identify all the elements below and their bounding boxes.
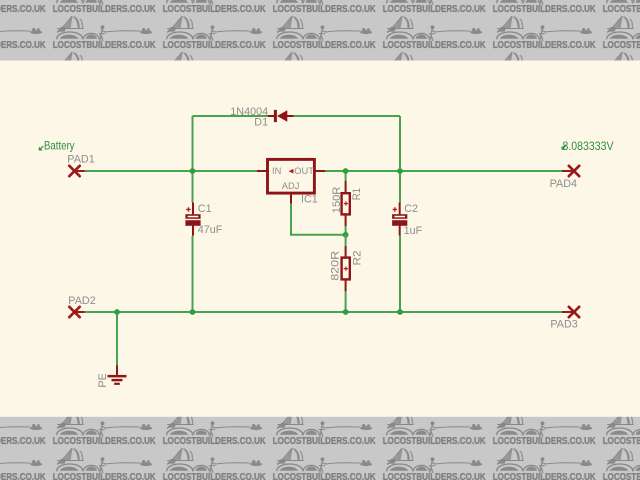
wire main input net (y=171) [85,170,258,172]
svg-text:47uF: 47uF [198,224,223,236]
ground PE [97,366,127,388]
wire R2 upper branch [345,235,347,246]
svg-text:PE: PE [97,373,109,387]
junction ground net / C2 branch [397,309,403,315]
svg-text:OUT: OUT [294,166,314,176]
junction ground net / R2 branch [343,309,349,315]
svg-text:D1: D1 [254,116,268,128]
diode D1 [230,106,293,129]
schematic sheet background [0,61,640,417]
pad PAD2 [68,295,95,317]
capacitor C1 [185,203,222,237]
junction output net / R1 branch [343,168,349,174]
junction input net / C1 branch [190,168,196,174]
pad PAD4 [550,166,580,190]
wire vertical right branch x=400 [399,116,401,312]
junction ADJ net / R1-R2 node [343,232,349,238]
wire bottom ground net (y=312) [85,311,563,313]
resistor R1 [331,181,363,226]
svg-text:ADJ: ADJ [282,181,300,191]
svg-text:C2: C2 [404,203,418,215]
junction output net / C2 branch [397,168,403,174]
wire ADJ net [291,204,346,235]
junction ground net / PE branch [114,309,120,315]
svg-text:PAD1: PAD1 [67,154,94,166]
pad PAD1 [67,154,94,177]
wire vertical left branch x=192.5 [192,116,194,312]
svg-text:C1: C1 [198,203,212,215]
wire output net (y=171) [325,170,562,172]
wire R2 lower branch [345,291,347,312]
wire top feedback net (y=116) [193,115,401,117]
svg-text:R2: R2 [351,251,363,266]
junction ground net / C1 branch [190,309,196,315]
svg-text:PAD4: PAD4 [550,178,577,190]
pad PAD3 [550,307,579,331]
net label Battery [39,138,74,152]
svg-text:PAD2: PAD2 [68,295,95,307]
svg-text:820R: 820R [329,251,341,281]
svg-text:8.083333V: 8.083333V [563,139,614,153]
svg-text:1uF: 1uF [404,225,423,237]
svg-text:IC1: IC1 [301,194,318,206]
svg-text:150R: 150R [331,186,343,213]
svg-text:R1: R1 [351,188,363,200]
svg-text:PAD3: PAD3 [550,318,577,330]
wire PE branch [116,312,118,366]
svg-text:IN: IN [272,166,281,176]
net label 8.083333V [562,139,614,153]
capacitor C2 [392,203,423,237]
svg-text:Battery: Battery [44,138,75,152]
wire R1 branch [345,171,347,235]
voltage regulator IC1 [257,159,325,205]
resistor R2 [329,246,363,291]
